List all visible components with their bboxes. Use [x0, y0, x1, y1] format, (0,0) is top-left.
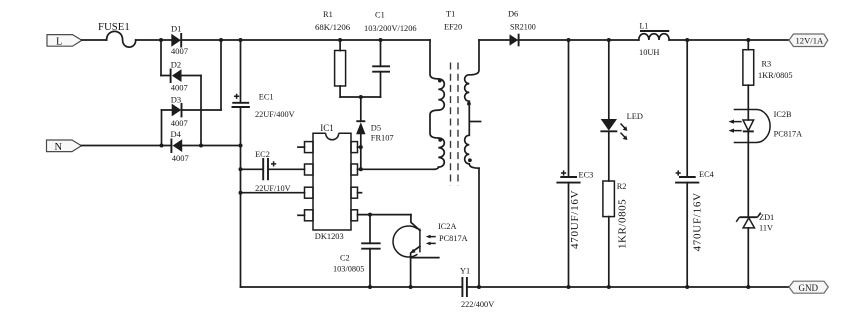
pin 4L: [298, 210, 313, 221]
svg-text:EC1: EC1: [259, 92, 274, 101]
node N connector: [47, 140, 82, 153]
pin 3L: [305, 187, 314, 198]
svg-text:4007: 4007: [171, 118, 188, 128]
svg-text:470UF/16V: 470UF/16V: [569, 190, 581, 249]
wire D3 anode to N: [161, 110, 163, 146]
svg-text:D2: D2: [171, 60, 181, 70]
resistor R2: [603, 181, 629, 287]
svg-text:R3: R3: [762, 59, 772, 68]
svg-text:1KR/0805: 1KR/0805: [616, 199, 628, 249]
secondary polarity dot top: [467, 102, 471, 106]
wire D3 row: [162, 109, 222, 111]
svg-text:EC2: EC2: [255, 150, 270, 159]
svg-text:IC2A: IC2A: [438, 222, 456, 231]
svg-text:ZD1: ZD1: [759, 213, 774, 222]
svg-text:LED: LED: [627, 112, 643, 121]
pin 2R: [351, 164, 361, 175]
wire DC+ top rail: [181, 39, 430, 41]
wire L to fuse: [82, 39, 107, 41]
svg-text:EF20: EF20: [444, 23, 462, 32]
diode D2: [171, 60, 188, 93]
resistor R1: [315, 10, 351, 97]
svg-text:IC1: IC1: [320, 123, 334, 133]
junction D3-N: [160, 144, 164, 148]
capacitor C2: [333, 215, 381, 287]
junction EC3: [567, 38, 571, 42]
junction ZD1 gnd: [746, 285, 750, 289]
junction EC4 gnd: [685, 285, 689, 289]
svg-text:C1: C1: [375, 11, 385, 20]
wire secondary top to D6: [479, 39, 510, 41]
svg-text:EC3: EC3: [579, 170, 594, 179]
svg-text:L: L: [56, 37, 62, 48]
svg-text:4007: 4007: [171, 83, 188, 93]
svg-text:PC817A: PC817A: [774, 129, 803, 138]
inductor L1: [639, 21, 669, 57]
svg-text:R2: R2: [617, 182, 627, 191]
junction secondary return: [477, 285, 481, 289]
svg-text:222/400V: 222/400V: [461, 300, 494, 309]
wire drain to primary winding: [361, 168, 434, 170]
wire primary ground rail: [241, 286, 463, 288]
svg-text:D5: D5: [371, 123, 381, 132]
junction EC4: [685, 38, 689, 42]
wire IC1 gnd pin to negative column: [241, 192, 305, 194]
transformer T1 primary winding: [430, 40, 444, 169]
wire L node to D2 cathode: [160, 40, 162, 76]
diode D3: [171, 94, 188, 128]
junction pin1R at D5 line: [359, 145, 363, 149]
junction C2 gnd: [368, 285, 372, 289]
pin 1L: [298, 142, 313, 153]
LED indicator: [600, 40, 642, 181]
wire snubber bottom: [340, 96, 380, 98]
diode D6: [508, 10, 536, 47]
svg-text:D3: D3: [171, 94, 181, 104]
fuse FUSE1: [98, 21, 136, 47]
primary polarity dot aux: [438, 138, 442, 142]
svg-text:4007: 4007: [172, 153, 189, 163]
wire D2 row: [161, 75, 201, 77]
svg-text:EC4: EC4: [699, 170, 715, 179]
node GND connector: [789, 281, 828, 293]
svg-text:IC2B: IC2B: [774, 110, 792, 119]
junction EC3 gnd: [567, 285, 571, 289]
diode D5: [356, 97, 394, 169]
svg-text:12V/1A: 12V/1A: [796, 36, 824, 46]
diode D1: [171, 24, 188, 57]
resistor R3: [743, 40, 793, 120]
svg-text:22UF/400V: 22UF/400V: [255, 110, 295, 119]
diode D4: [171, 129, 189, 163]
wire secondary ground rail: [467, 286, 789, 288]
wire IC1 feedback pin to IC2A collector: [358, 214, 411, 216]
junction D3 cathode at + rail: [219, 38, 223, 42]
secondary polarity dot bottom: [468, 158, 472, 162]
junction R2 gnd: [607, 285, 611, 289]
capacitor C1: [364, 11, 417, 97]
svg-text:68K/1206: 68K/1206: [315, 22, 351, 32]
svg-text:D4: D4: [171, 129, 182, 139]
svg-text:GND: GND: [799, 283, 819, 293]
svg-text:PC817A: PC817A: [439, 234, 468, 243]
svg-text:1KR/0805: 1KR/0805: [758, 71, 793, 80]
svg-text:470UF/16V: 470UF/16V: [691, 192, 703, 251]
wire output rail: [519, 39, 789, 41]
junction gnd pin at negative column: [239, 191, 243, 195]
svg-text:22UF/10V: 22UF/10V: [255, 184, 291, 193]
transformer T1 labels: [444, 10, 462, 32]
wire N row: [81, 145, 240, 147]
junction R3: [746, 38, 750, 42]
capacitor EC2: [241, 150, 305, 193]
junction D5 at snubber: [359, 95, 363, 99]
svg-text:SR2100: SR2100: [510, 23, 536, 32]
svg-text:FR107: FR107: [371, 133, 394, 142]
wire D3 cathode to + rail: [220, 40, 222, 110]
transformer T1 secondary winding: [465, 40, 479, 168]
secondary center tap stub: [469, 121, 480, 123]
svg-text:DK1203: DK1203: [315, 232, 344, 241]
svg-text:D1: D1: [171, 24, 181, 34]
junction LED column: [607, 38, 611, 42]
svg-text:R1: R1: [323, 10, 333, 19]
node 12V/1A output connector: [789, 34, 828, 47]
junction R1 at + rail: [338, 38, 342, 42]
junction C2 tap: [368, 213, 372, 217]
wire fuse to D1: [136, 39, 172, 41]
pin 1R: [351, 142, 361, 153]
wire secondary return: [478, 168, 480, 287]
wire bridge negative (D2/D4 anodes): [200, 76, 202, 146]
svg-text:4007: 4007: [171, 46, 188, 56]
svg-text:T1: T1: [446, 10, 455, 19]
junction pin2R drain node: [359, 167, 363, 171]
transformer core: [451, 63, 459, 187]
zener ZD1: [736, 213, 774, 287]
svg-text:N: N: [55, 142, 63, 153]
capacitor EC3: [556, 40, 593, 287]
svg-text:C2: C2: [340, 254, 350, 263]
pin 3R: [351, 187, 362, 198]
pin 2L: [305, 164, 314, 175]
optocoupler IC2B (LED side): [729, 110, 803, 217]
junction IC2A emitter gnd: [409, 285, 413, 289]
junction EC2 at negative column: [239, 167, 243, 171]
svg-text:10UH: 10UH: [639, 48, 659, 57]
pin 4R: [351, 210, 358, 221]
junction C1 at + rail: [379, 38, 383, 42]
junction EC1 at + rail: [239, 38, 243, 42]
IC U1 DK1203 body: [313, 123, 351, 241]
svg-text:Y1: Y1: [460, 266, 470, 275]
capacitor EC1: [232, 40, 295, 287]
svg-text:FUSE1: FUSE1: [98, 21, 130, 33]
node L connector: [47, 35, 82, 48]
junction L-node: [159, 38, 163, 42]
svg-text:L1: L1: [640, 21, 649, 30]
primary polarity dot top: [438, 79, 442, 83]
optocoupler IC2A (transistor side): [393, 215, 468, 287]
svg-text:11V: 11V: [759, 223, 773, 232]
svg-text:103/0805: 103/0805: [333, 265, 364, 274]
capacitor Y1: [460, 266, 494, 309]
svg-text:103/200V/1206: 103/200V/1206: [364, 24, 417, 33]
capacitor EC4: [675, 40, 715, 287]
junction D2-D4: [199, 144, 203, 148]
svg-text:D6: D6: [508, 10, 518, 19]
junction negative to EC1 column: [239, 144, 243, 148]
